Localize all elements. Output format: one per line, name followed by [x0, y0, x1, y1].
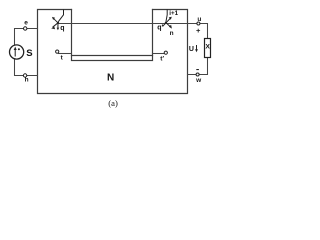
svg-text:t′: t′	[160, 56, 164, 63]
svg-text:i+1: i+1	[169, 10, 178, 17]
svg-text:q′: q′	[157, 25, 163, 32]
svg-text:X: X	[205, 43, 210, 50]
svg-text:h: h	[25, 76, 29, 83]
svg-text:n: n	[170, 30, 174, 37]
svg-text:S: S	[26, 48, 32, 59]
svg-text:(a): (a)	[108, 98, 118, 108]
svg-text:q: q	[60, 25, 64, 32]
svg-text:+: +	[196, 26, 201, 35]
svg-text:N: N	[107, 73, 114, 84]
svg-text:e: e	[24, 19, 28, 26]
svg-text:w: w	[195, 77, 202, 84]
svg-text:u: u	[197, 16, 201, 23]
svg-text:U: U	[189, 46, 194, 53]
